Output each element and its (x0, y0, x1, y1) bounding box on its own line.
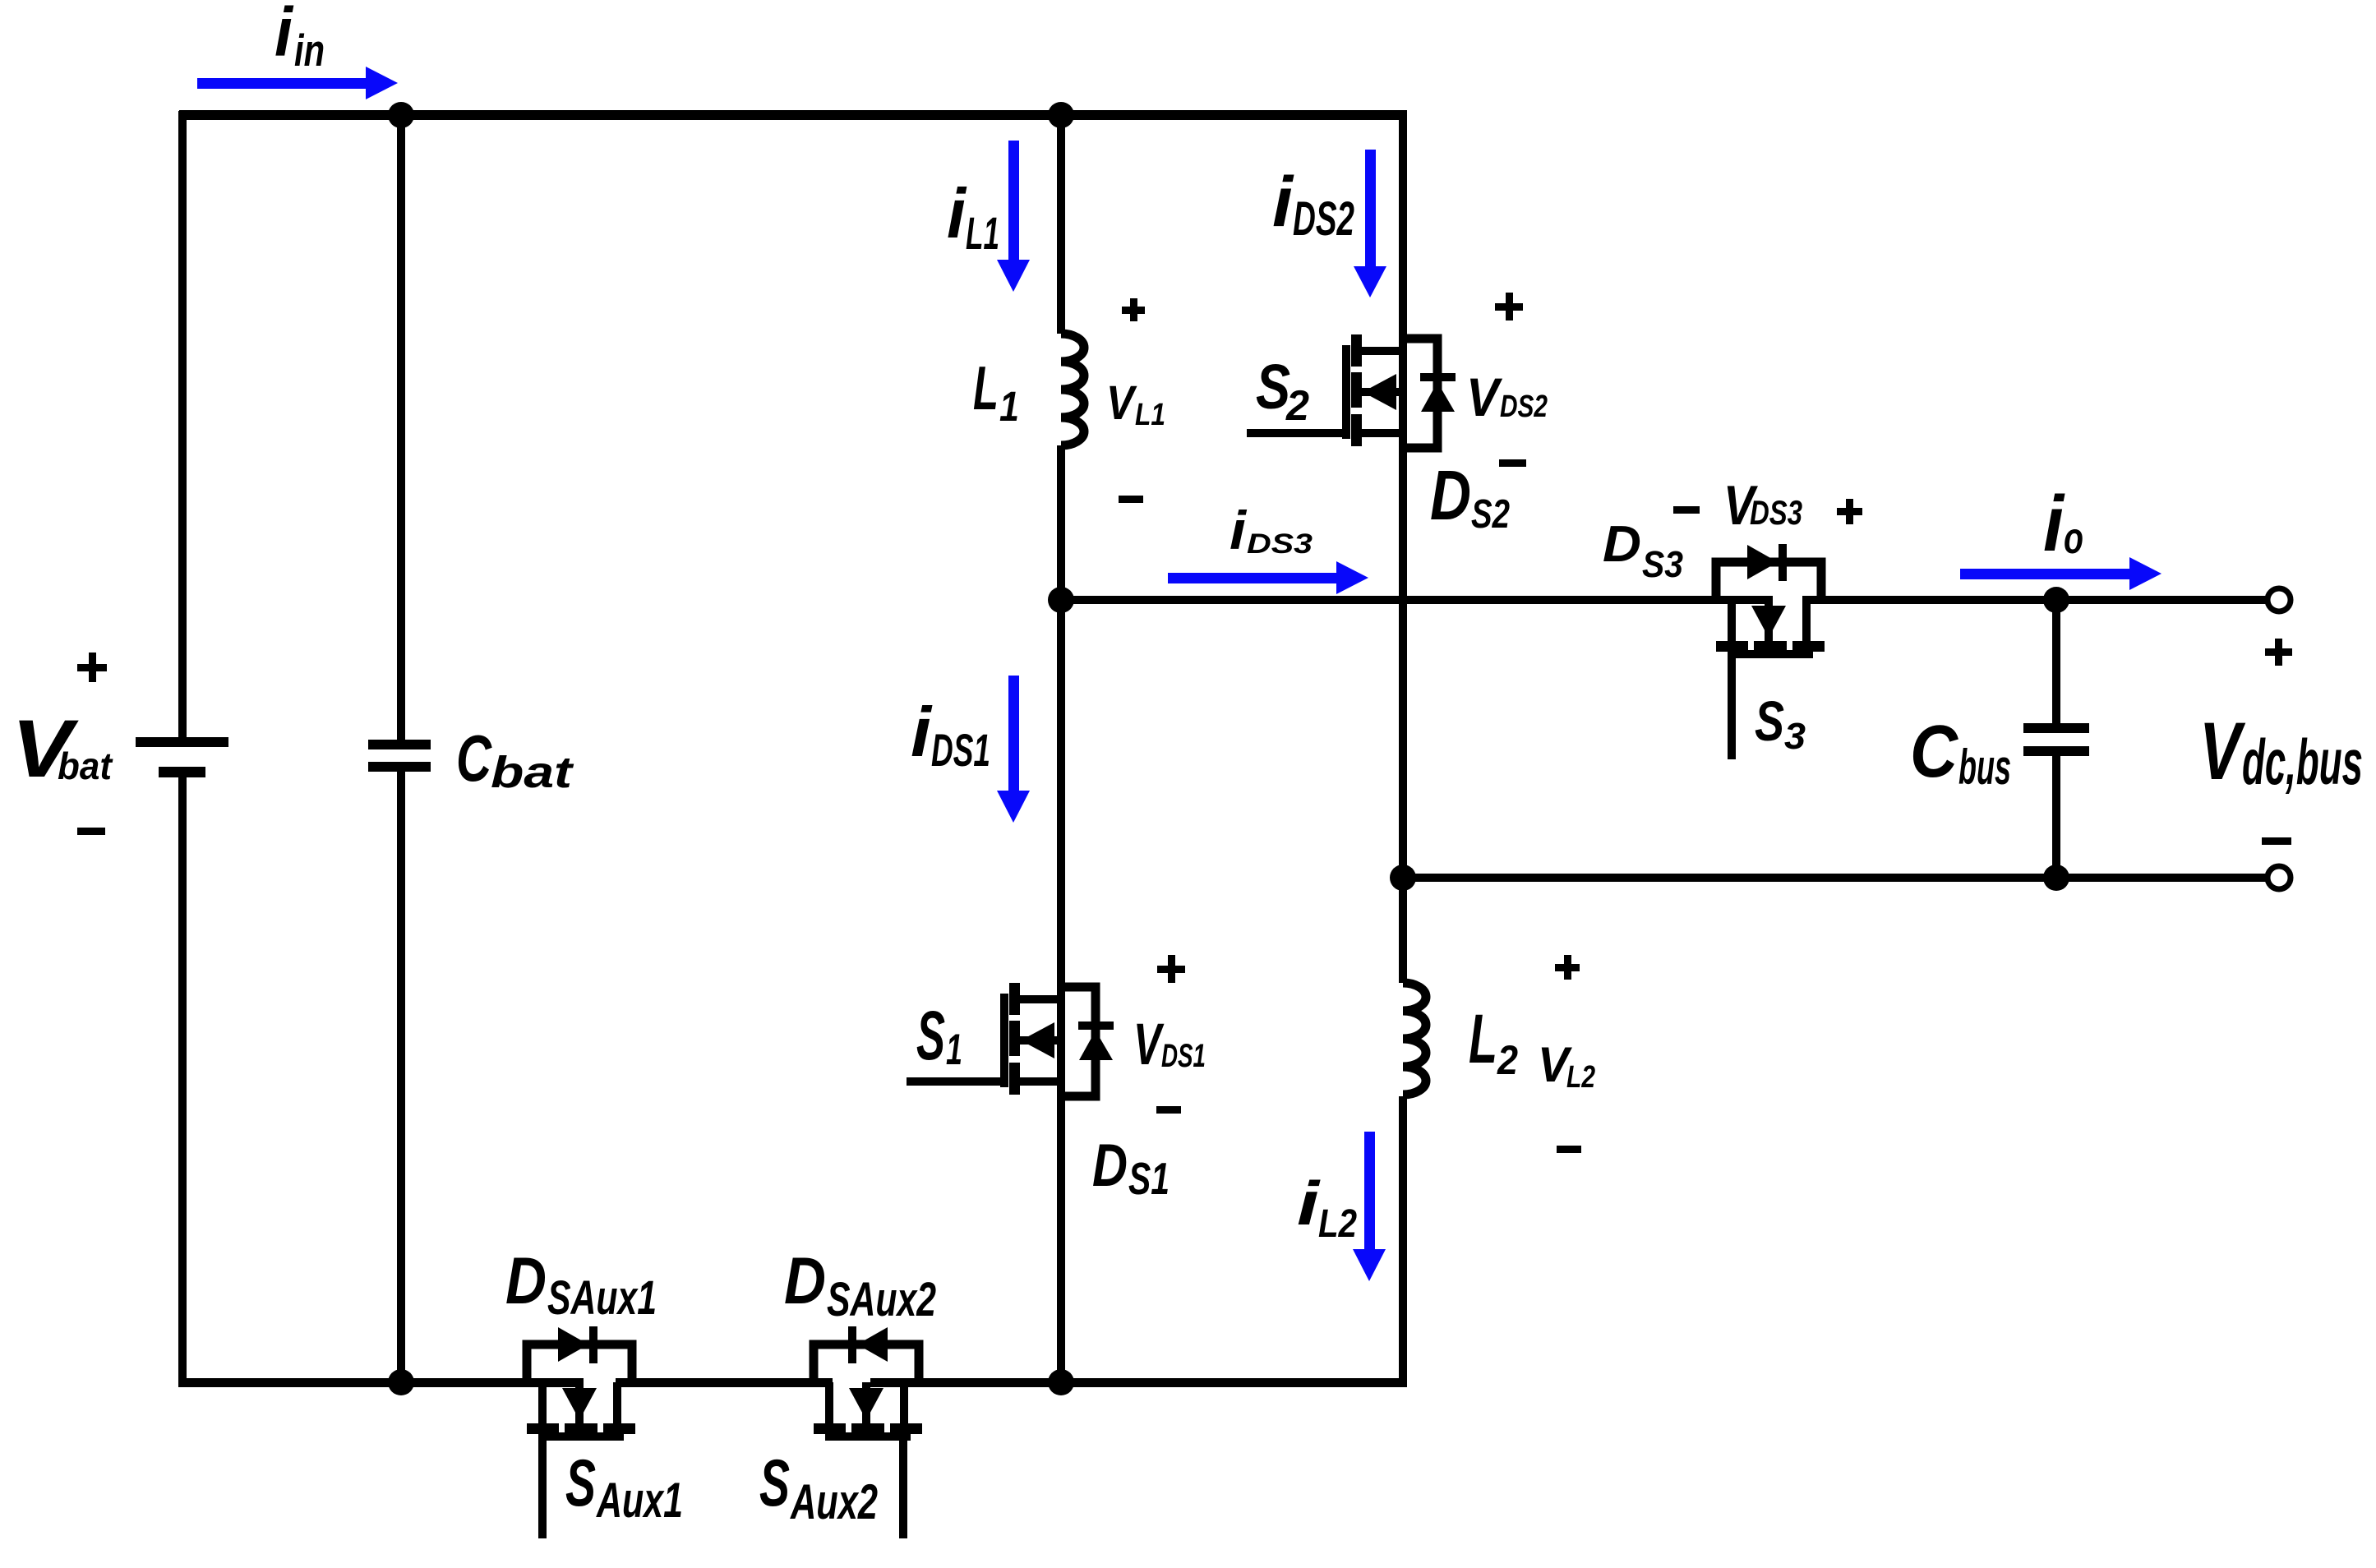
label V_DS2 (1466, 367, 1548, 427)
wire S2-L2 branch upper (1399, 115, 1407, 983)
wire mid bus right of S3 (1802, 596, 2269, 604)
polarity minus V_dc_bus (2262, 837, 2291, 845)
current arrow i_in (197, 67, 398, 99)
node L1-S1 mid junction (1048, 587, 1074, 613)
wire Cbat branch lower (397, 772, 405, 1382)
polarity minus V_DS3 (1673, 506, 1700, 514)
wire mid bus left of S3 (1057, 596, 1773, 604)
svg-text:bat: bat (491, 748, 574, 797)
svg-text:2: 2 (1497, 1037, 1518, 1083)
wire L1-S1 branch (1057, 445, 1065, 1382)
svg-text:in: in (294, 25, 325, 76)
label D_SAux1 (505, 1244, 657, 1325)
label Cbat (456, 722, 574, 797)
svg-text:V: V (1466, 367, 1503, 427)
label Cbus (1910, 711, 2011, 795)
node Cbus bottom junction (2043, 865, 2069, 891)
wire L1 branch top (1057, 115, 1065, 334)
wire bottom bus segment 2 (616, 1378, 833, 1387)
svg-text:DS1: DS1 (931, 724, 990, 776)
svg-text:L2: L2 (1566, 1060, 1595, 1095)
output terminal minus (2268, 866, 2291, 889)
label D_S2 (1430, 457, 1510, 537)
label L1 (973, 353, 1019, 430)
svg-text:S: S (1256, 352, 1290, 422)
node Cbat bottom junction (388, 1369, 414, 1395)
polarity plus V_dc_bus (2265, 639, 2292, 666)
transistor SAux2 (814, 1326, 922, 1538)
svg-text:S: S (565, 1446, 596, 1520)
inductor L2 (1403, 983, 1426, 1095)
label L2 (1469, 1000, 1518, 1083)
svg-text:bat: bat (58, 745, 113, 787)
svg-text:Aux2: Aux2 (790, 1474, 878, 1529)
svg-text:D: D (1092, 1132, 1128, 1199)
svg-text:L1: L1 (1135, 398, 1165, 432)
current arrow i_DS1 (997, 676, 1030, 823)
label S3 (1755, 689, 1806, 757)
svg-text:S: S (759, 1446, 790, 1520)
polarity plus Vbat (77, 653, 107, 682)
label S2 (1256, 352, 1309, 430)
svg-text:L: L (1469, 1000, 1497, 1077)
transistor SAux1 (527, 1326, 635, 1538)
current arrow i_L1 (997, 141, 1030, 292)
svg-text:i: i (911, 694, 934, 772)
polarity plus V_L2 (1555, 955, 1580, 980)
label V_DS1 (1133, 1012, 1206, 1077)
svg-text:i: i (947, 175, 967, 253)
svg-text:i: i (2043, 480, 2065, 568)
svg-text:C: C (1910, 711, 1959, 793)
svg-text:L1: L1 (966, 207, 999, 259)
svg-text:C: C (456, 722, 492, 795)
label D_S3 (1603, 516, 1683, 585)
label S_Aux1 (565, 1446, 683, 1528)
node Cbus top junction (2043, 587, 2069, 613)
svg-text:V: V (1133, 1012, 1165, 1077)
node L1 top junction (1048, 102, 1074, 128)
label S_Aux2 (759, 1446, 878, 1529)
svg-text:1: 1 (999, 383, 1019, 430)
svg-text:dc,bus: dc,bus (2242, 726, 2363, 798)
current arrow i_L2 (1353, 1132, 1386, 1281)
label i_L2 (1297, 1169, 1357, 1246)
capacitor Cbat (368, 740, 431, 772)
node S1 bottom junction (1048, 1369, 1074, 1395)
label i_DS1 (911, 694, 990, 776)
label D_SAux2 (784, 1244, 936, 1326)
inductor L1 (1061, 334, 1084, 445)
svg-text:SAux2: SAux2 (827, 1273, 936, 1326)
svg-text:S2: S2 (1471, 492, 1510, 537)
wire top bus (179, 110, 1407, 120)
wire left branch upper (178, 111, 187, 737)
wire L2 branch lower (1399, 1096, 1407, 1387)
label Vbat (12, 703, 113, 794)
svg-text:i: i (1272, 163, 1294, 242)
svg-text:i: i (1230, 500, 1248, 560)
svg-text:D: D (505, 1244, 547, 1318)
svg-text:SAux1: SAux1 (547, 1271, 657, 1325)
polarity minus Vbat (77, 828, 105, 835)
transistor S1 (907, 983, 1114, 1096)
svg-text:DS1: DS1 (1161, 1038, 1206, 1074)
current arrow i_o (1960, 557, 2161, 590)
svg-text:i: i (275, 0, 294, 71)
wire Cbus branch lower (2052, 756, 2060, 878)
svg-text:S: S (1755, 689, 1784, 753)
wire bottom bus segment 1 (178, 1378, 584, 1387)
label i_o (2043, 480, 2083, 568)
wire bottom bus segment 3 (870, 1378, 1407, 1387)
capacitor Cbus (2023, 723, 2089, 756)
svg-text:DS2: DS2 (1500, 390, 1548, 424)
svg-text:L2: L2 (1318, 1202, 1357, 1246)
label i_L1 (947, 175, 999, 259)
svg-text:DS3: DS3 (1750, 493, 1802, 532)
label S1 (916, 997, 962, 1074)
polarity minus V_L1 (1119, 496, 1143, 503)
svg-text:D: D (1430, 457, 1471, 535)
current arrow i_DS2 (1354, 150, 1386, 297)
wire lower output bus (1399, 874, 2269, 882)
transistor S3 (1716, 544, 1825, 759)
wire Cbus branch upper (2052, 600, 2060, 723)
label V_L2 (1538, 1037, 1595, 1095)
polarity plus V_L1 (1122, 298, 1145, 321)
polarity plus V_DS3 (1837, 499, 1862, 524)
label D_S1 (1092, 1132, 1170, 1204)
svg-text:D: D (784, 1244, 826, 1318)
label V_dc_bus (2199, 705, 2363, 798)
node L2 top junction (1390, 865, 1416, 891)
svg-text:S1: S1 (1128, 1153, 1170, 1204)
wire left branch lower (178, 777, 187, 1387)
label i_in (275, 0, 325, 76)
node input top junction (388, 102, 414, 128)
current arrow i_DS3 (1168, 561, 1368, 594)
polarity minus V_L2 (1557, 1146, 1581, 1153)
svg-text:3: 3 (1784, 715, 1806, 757)
svg-text:DS3: DS3 (1247, 528, 1313, 560)
label V_DS3 (1723, 474, 1802, 537)
polarity plus V_DS1 (1157, 955, 1185, 983)
svg-text:Aux1: Aux1 (596, 1473, 683, 1528)
svg-text:bus: bus (1958, 740, 2011, 795)
wire Cbat branch upper (397, 115, 405, 740)
polarity minus V_DS2 (1499, 459, 1526, 467)
svg-text:S3: S3 (1642, 543, 1683, 585)
svg-text:L: L (973, 353, 999, 422)
battery Vbat (136, 737, 228, 777)
svg-text:D: D (1603, 516, 1641, 573)
svg-text:V: V (2199, 705, 2245, 796)
label i_DS2 (1272, 163, 1354, 246)
label V_L1 (1106, 376, 1165, 432)
svg-text:2: 2 (1285, 382, 1309, 430)
polarity plus V_DS2 (1495, 293, 1523, 321)
label i_DS3 (1230, 500, 1313, 560)
svg-text:DS2: DS2 (1293, 192, 1354, 246)
transistor S2 (1247, 334, 1456, 448)
svg-text:V: V (1106, 376, 1137, 430)
svg-text:S: S (916, 997, 945, 1074)
svg-text:o: o (2064, 514, 2083, 563)
output terminal plus (2268, 588, 2291, 611)
svg-text:1: 1 (946, 1026, 962, 1074)
polarity minus V_DS1 (1156, 1106, 1181, 1114)
